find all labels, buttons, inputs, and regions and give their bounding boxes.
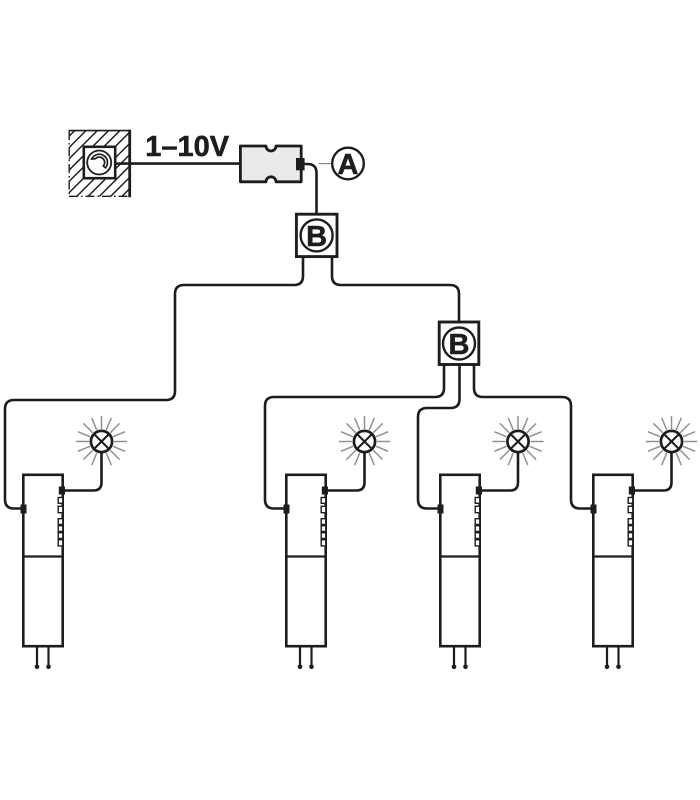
svg-text:B: B — [306, 221, 327, 253]
svg-text:A: A — [338, 149, 359, 181]
svg-text:1–10V: 1–10V — [145, 131, 230, 163]
svg-text:B: B — [449, 329, 470, 361]
